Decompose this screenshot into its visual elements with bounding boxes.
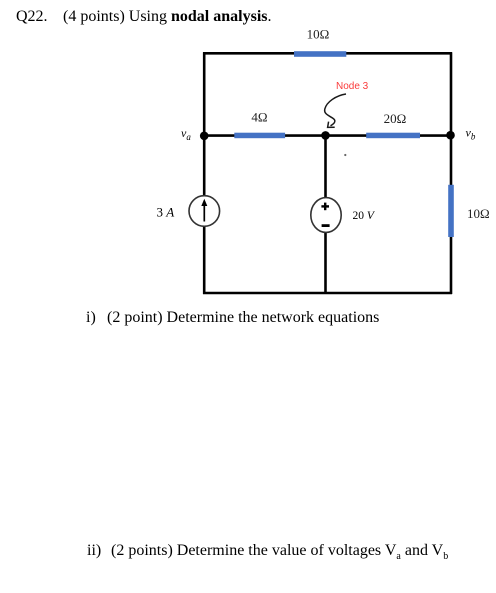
- svg-text:20Ω: 20Ω: [384, 111, 407, 126]
- title line Q22: [16, 9, 48, 25]
- wire right vertical: [450, 52, 453, 294]
- node va dot: [200, 132, 209, 141]
- current source I1 3A: [157, 196, 220, 227]
- svg-text:Node 3: Node 3: [336, 81, 369, 92]
- stray dot artifact: [344, 154, 346, 156]
- resistor R top 10ohm: [294, 27, 346, 57]
- svg-text:vb: vb: [466, 126, 476, 142]
- svg-text:4Ω: 4Ω: [251, 109, 267, 124]
- wire middle vertical: [324, 136, 327, 293]
- arrow from Node 3 label to middle node: [325, 94, 346, 127]
- resistor 4ohm: [234, 109, 285, 138]
- wire bottom: [203, 292, 452, 295]
- question item ii: [87, 543, 101, 559]
- node 3 dot (middle): [321, 131, 330, 140]
- wire top: [203, 52, 452, 55]
- wire left vertical: [203, 52, 206, 294]
- wire middle horizontal: [204, 134, 451, 137]
- svg-text:20 V: 20 V: [353, 210, 376, 222]
- svg-text:10Ω: 10Ω: [307, 27, 330, 42]
- svg-text:va: va: [181, 126, 191, 142]
- resistor 20ohm: [366, 111, 420, 138]
- svg-text:3 A: 3 A: [157, 204, 175, 219]
- resistor right 10ohm vertical: [448, 185, 489, 237]
- svg-text:10Ω: 10Ω: [467, 206, 490, 221]
- node vb dot: [446, 131, 455, 140]
- question item i: [86, 310, 96, 326]
- voltage source V1 20V: [311, 198, 376, 233]
